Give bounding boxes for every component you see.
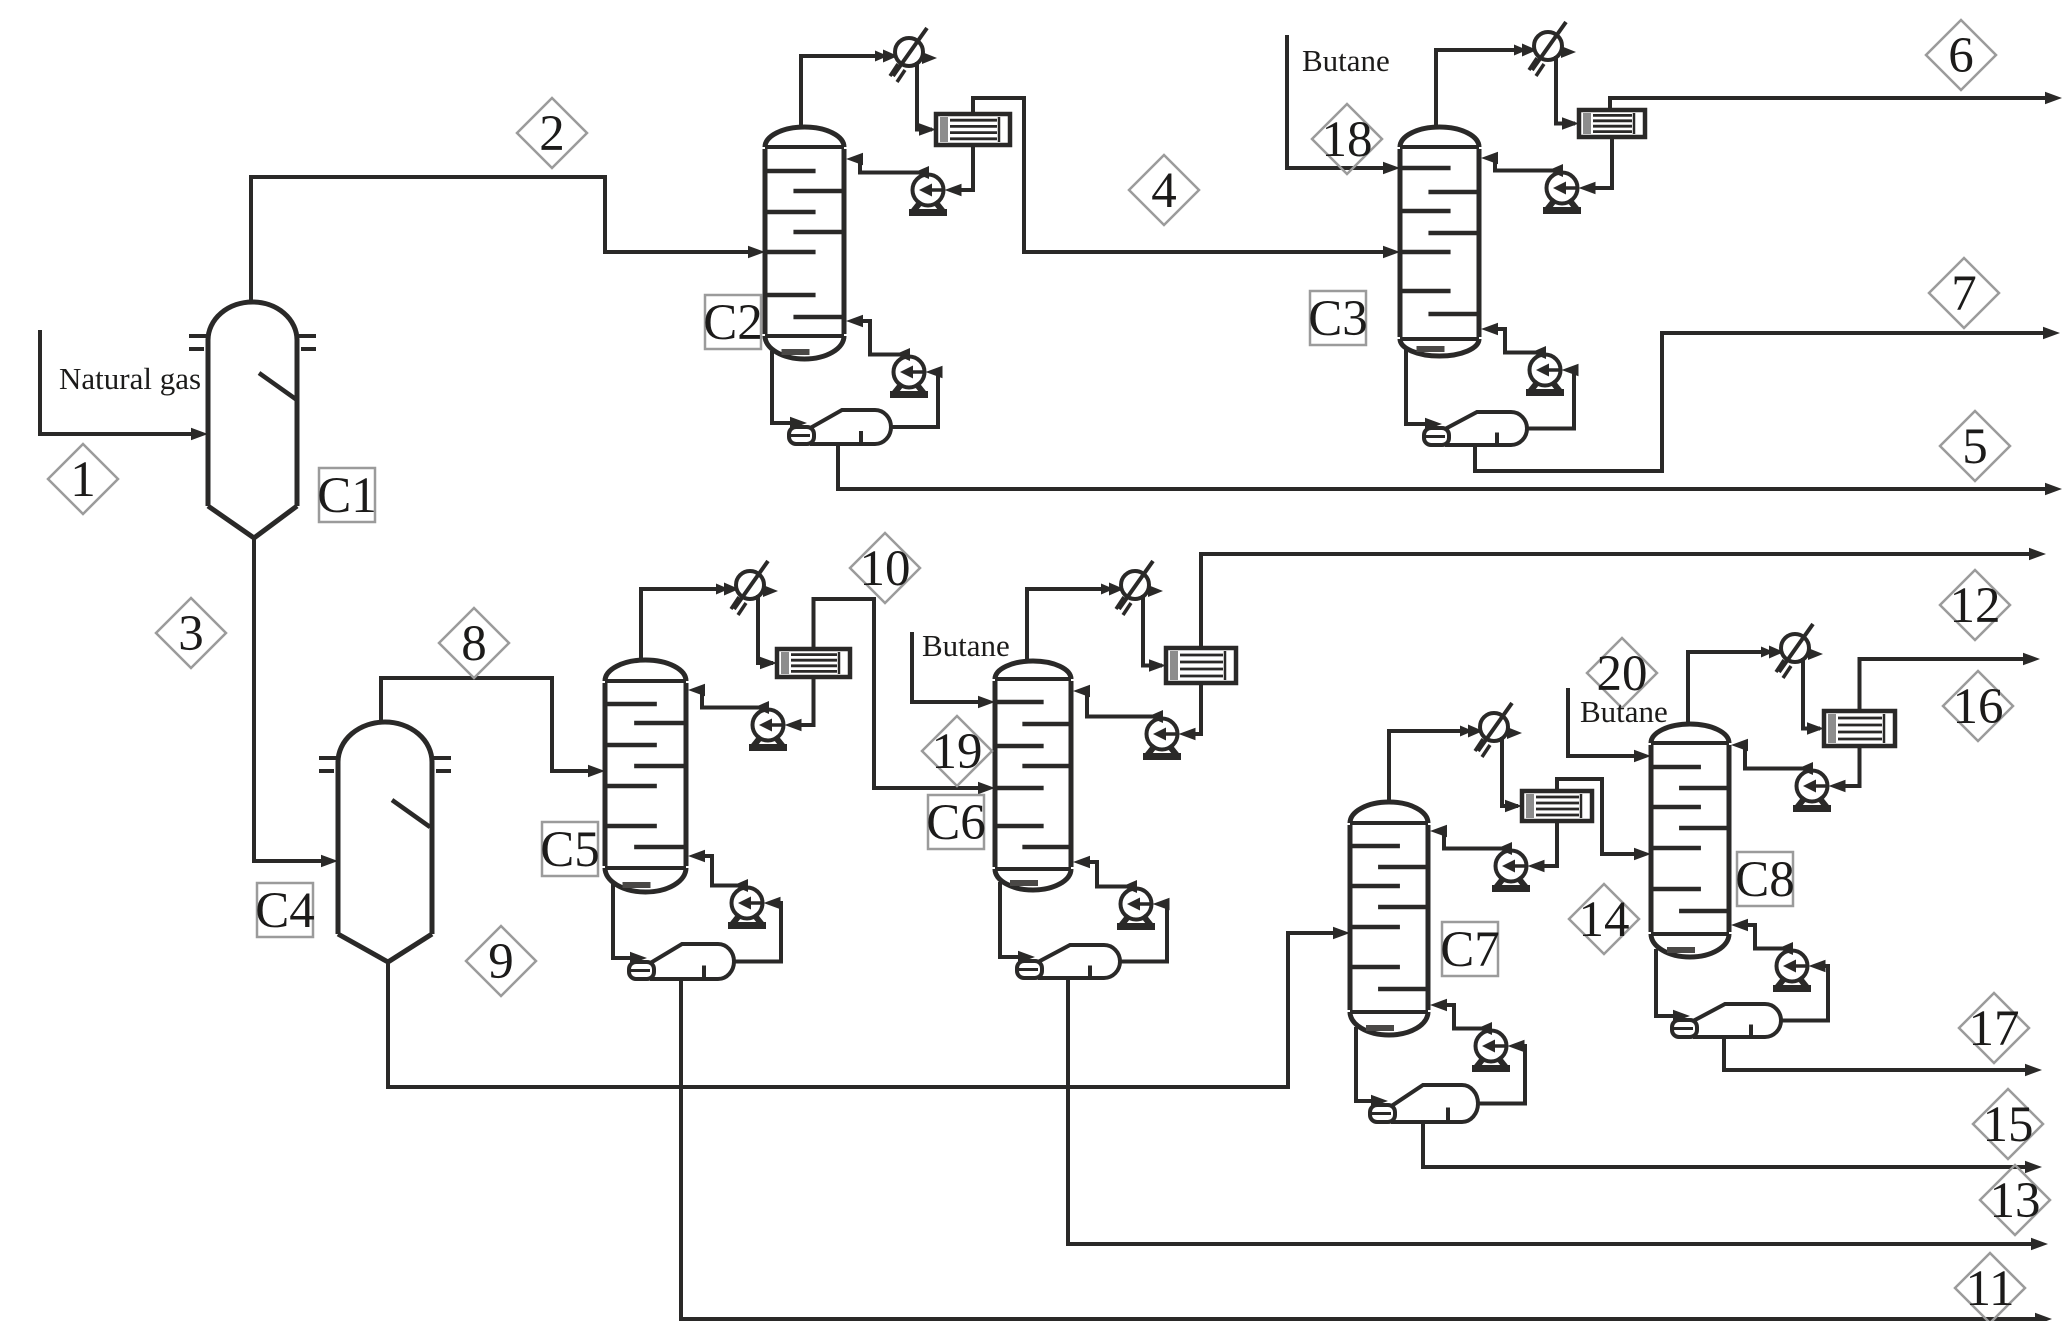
C7 reflux return line: [1442, 831, 1510, 849]
condenser C6 overhead: [1121, 571, 1149, 599]
svg-text:7: 7: [1951, 266, 1977, 322]
stream number diamond 16: [1943, 671, 2013, 741]
stream 20 butane feed line to C8: [1568, 688, 1635, 756]
C7 condenser outlet line: [1502, 737, 1518, 806]
svg-text:16: 16: [1953, 679, 2004, 735]
stream 4 line C2 distillate to C3: [973, 98, 1384, 252]
reflux pump C6: [1147, 719, 1178, 750]
label box C8: [1737, 852, 1793, 906]
stream number diamond 7: [1929, 258, 1999, 328]
C3 cooler-to-pump line: [1594, 137, 1613, 188]
C6 reflux return line: [1085, 691, 1161, 717]
stream number diamond 17: [1959, 993, 2029, 1063]
stream number diamond 20: [1587, 638, 1657, 708]
reflux pump C2: [913, 175, 944, 206]
C5 cooler-to-pump line: [800, 677, 814, 725]
C6 reboiler return line: [1085, 862, 1135, 887]
stream 8 line C4 overhead to C5: [381, 678, 589, 771]
svg-text:Butane: Butane: [922, 628, 1010, 663]
label box C3: [1310, 291, 1366, 345]
svg-text:C3: C3: [1308, 291, 1368, 347]
C8 overhead vapour line: [1688, 652, 1779, 726]
svg-text:C8: C8: [1735, 852, 1795, 908]
stream 14 line C7 distillate to C8: [1557, 779, 1635, 854]
svg-text:11: 11: [1965, 1261, 2014, 1317]
svg-text:17: 17: [1969, 1001, 2020, 1057]
C2 cooler-to-pump line: [960, 145, 974, 190]
stream 1 natural gas feed line: [40, 330, 192, 434]
svg-text:C4: C4: [255, 883, 315, 939]
stream 13 line C6 bottoms product: [1068, 978, 2034, 1244]
C6 condenser outlet line: [1143, 595, 1162, 666]
C8 cooler-to-pump line: [1844, 746, 1860, 786]
stream 11 line C5 bottoms product: [681, 979, 2038, 1319]
separator C4: [338, 722, 432, 762]
column C3: [1398, 149, 1403, 337]
svg-text:C1: C1: [317, 468, 377, 524]
stream number diamond 15: [1973, 1089, 2043, 1159]
reboiler C7: [1393, 1085, 1478, 1122]
reboiler pump C2: [894, 357, 925, 388]
C7 reboiler-to-pump line: [1478, 1046, 1525, 1104]
C5 overhead vapour line: [641, 589, 734, 662]
stream 7 line C3 bottoms product: [1475, 333, 2046, 471]
C2 reflux return line: [858, 159, 927, 173]
stream 17 line C8 bottoms product: [1724, 1037, 2028, 1070]
label box C5: [542, 822, 598, 876]
C8 reflux return line: [1743, 745, 1811, 769]
separator C1: [208, 302, 297, 340]
svg-text:Butane: Butane: [1580, 694, 1668, 729]
reflux pump C7: [1496, 851, 1527, 882]
svg-text:Natural gas: Natural gas: [59, 361, 201, 396]
svg-text:C6: C6: [926, 795, 986, 851]
reboiler pump C5: [732, 888, 763, 919]
stream number diamond 2: [517, 98, 587, 168]
C8 reboiler return line: [1743, 925, 1791, 949]
column C8: [1649, 745, 1654, 932]
stream 9 line C4 bottoms to C7: [388, 933, 1334, 1087]
svg-text:18: 18: [1322, 112, 1373, 168]
C2 reboiler return line: [858, 321, 908, 355]
svg-text:C5: C5: [540, 822, 600, 878]
reboiler pump C6: [1121, 889, 1152, 920]
column C5: [603, 683, 608, 866]
trim cooler C2: [936, 114, 1010, 145]
stream 10 line C5 distillate to C6: [814, 599, 980, 788]
C5 bottoms-to-reboiler line: [613, 884, 631, 958]
reboiler C8: [1695, 1004, 1781, 1037]
reboiler pump C7: [1476, 1031, 1507, 1062]
C3 reflux return line: [1493, 158, 1561, 171]
svg-text:2: 2: [539, 106, 565, 162]
stream 15 line C7 bottoms product: [1423, 1122, 2028, 1167]
stream number diamond 8: [439, 608, 509, 678]
C7 reboiler return line: [1442, 1005, 1490, 1029]
stream 18 butane feed line to C3: [1287, 35, 1384, 168]
condenser C2 overhead: [895, 38, 923, 66]
C3 reboiler-to-pump line: [1527, 370, 1577, 429]
svg-text:3: 3: [178, 606, 204, 662]
C5 reboiler-to-pump line: [734, 903, 781, 962]
trim cooler C5: [777, 649, 850, 677]
stream 6 line C3 distillate product: [1610, 98, 2048, 110]
trim cooler C8: [1824, 711, 1895, 746]
stream number diamond 12: [1940, 570, 2010, 640]
stream number diamond 6: [1926, 20, 1996, 90]
stream number diamond 4: [1129, 155, 1199, 225]
C3 condenser outlet line: [1556, 56, 1575, 124]
svg-text:4: 4: [1151, 163, 1177, 219]
C6 overhead vapour line: [1027, 589, 1119, 663]
column C2: [763, 149, 768, 334]
stream number diamond 19: [922, 716, 992, 786]
svg-text:19: 19: [932, 724, 983, 780]
C2 reboiler-to-pump line: [891, 372, 941, 427]
stream number diamond 11: [1955, 1253, 2025, 1321]
trim cooler C3: [1579, 110, 1645, 137]
svg-text:C2: C2: [703, 295, 763, 351]
reboiler pump C3: [1530, 355, 1561, 386]
reboiler C5: [652, 944, 734, 979]
reflux pump C3: [1547, 173, 1578, 204]
label box C7: [1442, 922, 1498, 976]
svg-text:14: 14: [1579, 892, 1630, 948]
reboiler C6: [1040, 945, 1120, 978]
stream number diamond 10: [850, 533, 920, 603]
C8 reboiler-to-pump line: [1781, 966, 1828, 1021]
C7 cooler-to-pump line: [1543, 821, 1558, 866]
condenser C5 overhead: [736, 571, 764, 599]
condenser C8 overhead: [1781, 634, 1809, 662]
C3 bottoms-to-reboiler line: [1406, 348, 1426, 424]
C7 bottoms-to-reboiler line: [1356, 1027, 1372, 1101]
stream 3 line C1 bottoms to C4: [254, 538, 322, 861]
C2 bottoms-to-reboiler line: [772, 351, 791, 423]
condenser C7 overhead: [1480, 713, 1508, 741]
condenser C3 overhead: [1534, 32, 1562, 60]
stream number diamond 13: [1980, 1165, 2050, 1235]
C8 condenser outlet line: [1803, 658, 1820, 729]
stream 2 line C1 overhead to C2: [251, 177, 749, 302]
svg-text:6: 6: [1948, 28, 1974, 84]
stream 19 butane feed line to C6: [912, 632, 979, 702]
C6 bottoms-to-reboiler line: [1000, 882, 1019, 957]
C6 cooler-to-pump line: [1194, 683, 1202, 734]
stream number diamond 5: [1940, 411, 2010, 481]
svg-text:Butane: Butane: [1302, 43, 1390, 78]
stream 5 line C2 bottoms product: [838, 444, 2048, 489]
C5 reboiler return line: [700, 856, 746, 886]
svg-text:13: 13: [1990, 1173, 2041, 1229]
column C6: [993, 681, 998, 867]
reflux pump C8: [1797, 771, 1828, 802]
column C7: [1348, 825, 1353, 1010]
svg-text:15: 15: [1983, 1097, 2034, 1153]
reboiler C3: [1447, 412, 1527, 445]
stream number diamond 3: [156, 598, 226, 668]
trim cooler C6: [1166, 648, 1236, 683]
reboiler C2: [812, 410, 891, 444]
stream number diamond 14: [1569, 884, 1639, 954]
C2 overhead vapour line: [801, 56, 893, 129]
stream number diamond 9: [466, 926, 536, 996]
stream 16 line C8 distillate product: [1860, 659, 2027, 711]
stream 12 line C6 distillate product: [1201, 554, 2032, 648]
C3 overhead vapour line: [1436, 50, 1532, 129]
C8 bottoms-to-reboiler line: [1656, 949, 1674, 1016]
label box C4: [257, 883, 313, 937]
svg-text:1: 1: [70, 452, 96, 508]
stream number diamond 1: [48, 444, 118, 514]
C3 reboiler return line: [1493, 329, 1544, 353]
label box C1: [319, 468, 375, 522]
reflux pump C5: [753, 710, 784, 741]
C5 condenser outlet line: [758, 595, 773, 663]
reboiler pump C8: [1777, 951, 1808, 982]
trim cooler C7: [1522, 791, 1592, 821]
label box C6: [928, 795, 984, 849]
stream number diamond 18: [1312, 104, 1382, 174]
svg-text:C7: C7: [1440, 922, 1500, 978]
svg-text:5: 5: [1962, 419, 1988, 475]
C2 condenser outlet line: [917, 62, 932, 130]
svg-text:12: 12: [1950, 578, 2001, 634]
svg-text:10: 10: [860, 541, 911, 597]
C7 overhead vapour line: [1389, 731, 1478, 804]
C6 reboiler-to-pump line: [1120, 904, 1168, 962]
label box C2: [705, 295, 761, 349]
C5 reflux return line: [700, 690, 767, 708]
svg-text:9: 9: [488, 934, 514, 990]
svg-text:8: 8: [461, 616, 487, 672]
